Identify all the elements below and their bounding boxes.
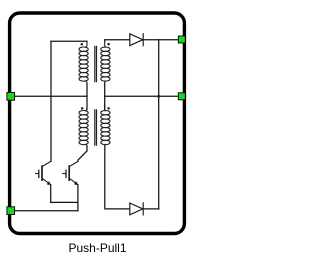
port 2 (left bottom) bbox=[7, 207, 15, 215]
wire: Q2 emitter drop bbox=[77, 185, 79, 211]
port 4 (right middle) bbox=[178, 93, 185, 100]
wire: left port 2 bbox=[12, 210, 78, 212]
wire: T1 right winding top to right port 1 bbox=[105, 40, 130, 42]
transistor Q2 (IGBT) bbox=[62, 161, 78, 184]
T2 left winding polarity dot bbox=[81, 107, 84, 110]
transformer T2 core bbox=[95, 109, 97, 145]
wire: IGBT Q1 collector vertical bbox=[50, 41, 52, 161]
T1 right winding polarity dot bbox=[107, 43, 110, 46]
transformer T2 left winding (primary 2) bbox=[79, 105, 88, 146]
transistor Q1 (IGBT) bbox=[35, 161, 51, 184]
diode D1 bbox=[130, 33, 143, 46]
Q2 emitter arrowhead bbox=[74, 181, 78, 185]
wire: Q1 emitter drop bbox=[50, 185, 52, 203]
T1 left winding polarity dot bbox=[81, 43, 84, 46]
wire: secondary center-tap lead bbox=[104, 83, 106, 109]
wire: primary center-tap lead bbox=[86, 83, 88, 109]
T2 right winding polarity dot bbox=[107, 107, 110, 110]
diode D2 bbox=[130, 202, 143, 215]
subsystem border frame bbox=[10, 13, 185, 234]
transformer T1 right winding (secondary 1) bbox=[101, 41, 110, 83]
wire: D2 cathode to rail bbox=[143, 208, 159, 210]
wire: diode D1 cathode to port bbox=[143, 39, 180, 41]
svg-text:Push-Pull1: Push-Pull1 bbox=[68, 241, 126, 255]
transformer T2 right winding (secondary 2) bbox=[101, 105, 110, 146]
wire: T1 left winding top to left corner bbox=[51, 40, 87, 42]
wire: emitter bus bbox=[51, 201, 78, 203]
wire: left port 1 to primary center tap bbox=[12, 95, 87, 97]
wire: T2 primary bottom jog to Q2 collector bbox=[78, 146, 87, 161]
wire: secondary tap to right port 2 bbox=[105, 95, 180, 97]
transformer T1 left winding (primary 1) bbox=[79, 41, 88, 83]
wire: cathode rail bbox=[158, 40, 160, 209]
port 1 (left top) bbox=[7, 93, 15, 101]
transformer T1 core bbox=[95, 46, 97, 82]
junction at rail and right port wire bbox=[157, 95, 160, 98]
port 3 (right top) bbox=[178, 36, 185, 43]
wire: D2 anode vertical from T2 secondary bottom bbox=[105, 146, 130, 209]
Q1 emitter arrowhead bbox=[47, 181, 51, 185]
